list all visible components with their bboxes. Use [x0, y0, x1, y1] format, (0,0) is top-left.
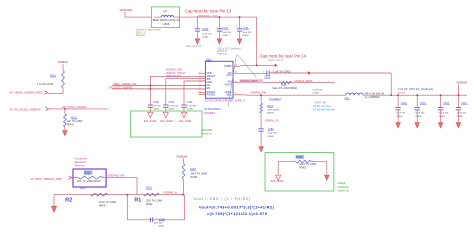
svg-text:0.1uF 25V C0402: 0.1uF 25V C0402: [273, 71, 292, 73]
svg-text:BEAD 100ohm 2A(P)=1A: BEAD 100ohm 2A(P)=1A: [153, 19, 180, 22]
annotation purple box: [73, 169, 106, 187]
ground arrow right leg: [325, 175, 330, 180]
svg-text:10uF 25V: 10uF 25V: [242, 32, 252, 34]
svg-text:Close to pin 14: Close to pin 14: [268, 59, 284, 62]
IC U10 left pin stubs: [199, 72, 206, 74]
svg-text:14: 14: [235, 72, 237, 74]
svg-text:PWC_VDDFA0_VFB: PWC_VDDFA0_VFB: [35, 177, 61, 181]
svg-text:Owner liu: Owner liu: [136, 34, 146, 37]
svg-text:7: 7: [200, 87, 201, 89]
svg-text:4.3R 7.7W: 4.3R 7.7W: [314, 102, 326, 105]
wire divider left corner to ground: [53, 195, 55, 206]
ground arrow for C103: [438, 123, 443, 128]
svg-text:VDDFA0_SN: VDDFA0_SN: [265, 120, 279, 123]
svg-text:VDDEVA: VDDEVA: [176, 154, 187, 158]
wire R126 right leg: [326, 162, 328, 175]
svg-text:+V3.3S: PP3.3V_S0(fixed): +V3.3S: PP3.3V_S0(fixed): [398, 87, 433, 91]
capacitor C141: [457, 94, 459, 96]
svg-text:121K 7% 1/16W: 121K 7% 1/16W: [146, 201, 163, 203]
svg-text:VDDFA0_VFB: VDDFA0_VFB: [108, 174, 125, 178]
svg-text:2: 2: [158, 193, 159, 195]
svg-text:107K 7% 1/16W R0402: 107K 7% 1/16W R0402: [77, 181, 102, 183]
wire SW output row: [240, 94, 246, 96]
svg-text:S7.9x3.9x9.7/8.9mm: S7.9x3.9x9.7/8.9mm: [313, 109, 335, 112]
capacitor C147: [218, 17, 220, 29]
wire pin13 row with arrow: [240, 64, 275, 66]
svg-text:EN: EN: [207, 87, 211, 90]
svg-text:4.7uF 16V: 4.7uF 16V: [168, 106, 178, 108]
svg-text:1: 1: [146, 218, 147, 220]
svg-text:Owner liu: Owner liu: [338, 189, 350, 193]
wire PWC net: [48, 93, 63, 95]
wire VDDCHG to bead L8: [125, 16, 152, 18]
svg-text:1: 1: [279, 81, 280, 83]
svg-text:11: 11: [235, 81, 237, 83]
svg-text:SW1: SW1: [226, 93, 232, 96]
ground arrow for C147: [217, 39, 222, 44]
svg-text:R0402: R0402: [299, 168, 306, 170]
wire row P2 to IC pin: [166, 78, 206, 80]
ground open arrow EVA_AGND 1: [148, 112, 153, 117]
junction VFB node: [126, 194, 128, 196]
svg-text:Vout=(0.743+0.0017*3.3)*(1+41/: Vout=(0.743+0.0017*3.3)*(1+41/R2): [199, 204, 275, 209]
svg-text:EVA_AGND: EVA_AGND: [271, 180, 284, 183]
svg-text:Added: Added: [338, 181, 346, 185]
svg-text:Vout3.3v: Vout3.3v: [397, 91, 406, 94]
leader line to pin area: [228, 55, 237, 108]
svg-text:40: 40: [30, 177, 33, 181]
svg-text:1: 1: [76, 176, 77, 178]
svg-text:Owner liu: Owner liu: [201, 132, 212, 135]
capacitor C103: [440, 94, 442, 96]
svg-text:VCC: VCC: [226, 74, 231, 77]
wire cap branch down: [126, 195, 128, 220]
svg-text:VDDFA0_REFS: VDDFA0_REFS: [295, 80, 313, 83]
ground open arrow EVA_AGND 3: [181, 112, 186, 117]
svg-text:VDDFA0_EN: VDDFA0_EN: [166, 75, 181, 78]
svg-text:10uF 25V: 10uF 25V: [415, 113, 425, 115]
svg-text:13: 13: [235, 65, 237, 67]
ground arrow for C146: [237, 39, 242, 44]
resistor R126 highlighted ref: [296, 155, 305, 159]
svg-text:VDD a VDC connected: VDD a VDC connected: [217, 47, 241, 50]
svg-text:R101: R101: [281, 85, 287, 87]
resistor R124: [260, 103, 263, 113]
wire R126 left leg: [277, 162, 279, 175]
svg-text:R2: R2: [65, 198, 72, 204]
svg-text:1: 1: [319, 81, 320, 83]
svg-text:C0805: C0805: [222, 35, 229, 37]
svg-text:C0402: C0402: [439, 116, 446, 118]
svg-text:5: 5: [200, 79, 201, 81]
svg-text:1: 1: [263, 71, 264, 73]
svg-text:Owner liu: Owner liu: [217, 53, 227, 56]
ground arrow for C142: [396, 123, 401, 128]
svg-text:EVA_AGND: EVA_AGND: [179, 120, 192, 123]
svg-text:SnubBer: SnubBer: [269, 97, 282, 101]
wire C162 to feedback corner: [269, 72, 391, 74]
ground arrow for C141: [456, 123, 461, 128]
svg-text:EN_DCDC_VDDFA0: EN_DCDC_VDDFA0: [63, 105, 88, 109]
svg-text:R0402: R0402: [146, 204, 153, 206]
svg-text:VDDFA0_W: VDDFA0_W: [163, 190, 178, 194]
svg-text:10uF 25V: 10uF 25V: [222, 32, 232, 34]
svg-text:HADA_VDDFA0_PWC: HADA_VDDFA0_PWC: [15, 90, 43, 94]
capacitor C153: [259, 128, 264, 130]
leader line to pin 14: [238, 55, 257, 78]
svg-text:0ohm 7% 1/16W: 0ohm 7% 1/16W: [299, 164, 317, 166]
wire R126 row: [278, 161, 296, 163]
svg-text:10pF 50V: 10pF 50V: [154, 223, 164, 225]
svg-text:C0402: C0402: [202, 36, 209, 38]
svg-text:40: 40: [10, 107, 13, 111]
svg-text:0.1uF 16V: 0.1uF 16V: [187, 106, 197, 108]
wire EN net: [49, 108, 108, 110]
svg-text:10K4 7% 1/16W: 10K4 7% 1/16W: [191, 173, 208, 175]
svg-text:C0805: C0805: [242, 35, 249, 37]
svg-text:R0402: R0402: [99, 205, 106, 207]
svg-text:2: 2: [156, 218, 157, 220]
svg-text:EVA_AGND: EVA_AGND: [160, 120, 173, 123]
svg-text:L2_LV6868A6: L2_LV6868A6: [365, 96, 381, 99]
wire pin11 row REFS: [240, 82, 335, 84]
wire row P1 to IC pin: [150, 75, 205, 77]
svg-text:TO0884: TO0884: [204, 111, 215, 115]
svg-text:=(0.769)*(1+121/22.1)=0.979: =(0.769)*(1+121/22.1)=0.979: [207, 211, 268, 216]
svg-text:22.1K 7% 1/16W: 22.1K 7% 1/16W: [99, 202, 117, 204]
capacitor C170: [416, 94, 418, 96]
svg-text:Vout = VBS * (1 + R1/R2): Vout = VBS * (1 + R1/R2): [193, 196, 250, 201]
annotation green box left ground group: [131, 111, 202, 137]
svg-text:4.7pF 50V: 4.7pF 50V: [267, 133, 278, 135]
svg-text:Cap must be near Pin 13: Cap must be near Pin 13: [185, 9, 232, 14]
svg-text:10uF 25V: 10uF 25V: [396, 113, 406, 115]
svg-text:L8 must be close to front: L8 must be close to front: [136, 29, 162, 32]
svg-text:R1: R1: [134, 198, 141, 204]
svg-text:40: 40: [10, 90, 13, 94]
wire inductor to output caps: [363, 94, 467, 96]
net label VDDFA0_REFS near pin highlighted: [240, 79, 264, 83]
svg-text:C0805: C0805: [415, 116, 422, 118]
svg-text:Same 0% 1/16W R0402: Same 0% 1/16W R0402: [272, 88, 297, 90]
wire labelled HADA_VDDFA0_PW to IC: [112, 85, 205, 87]
svg-text:VDDCHG: VDDCHG: [120, 8, 134, 12]
svg-text:1uF 16V: 1uF 16V: [153, 106, 161, 108]
svg-text:4.7k 2% 1/16W: 4.7k 2% 1/16W: [37, 83, 54, 86]
svg-text:EVA_AGND: EVA_AGND: [144, 120, 157, 123]
wire bead output rail 2.0V: [180, 16, 257, 18]
svg-text:12: 12: [235, 93, 237, 95]
svg-text:L1608: L1608: [163, 23, 170, 26]
IC U10 right pin stubs: [233, 65, 240, 67]
wire rail corner down to pin 13 row: [256, 17, 258, 65]
svg-text:2: 2: [328, 81, 329, 83]
svg-text:4.7R 1/16W: 4.7R 1/16W: [267, 110, 279, 112]
wire feedback corner down to output rail: [390, 73, 392, 95]
svg-text:C0402: C0402: [158, 225, 165, 227]
svg-text:+VDDCHG_2.0V: +VDDCHG_2.0V: [196, 14, 218, 18]
resistor R100 inside purple box: [84, 170, 93, 174]
svg-text:SOT23_DFN8_EPA_EP_AUPE_1: SOT23_DFN8_EPA_EP_AUPE_1: [205, 99, 246, 103]
capacitor C156: [148, 104, 153, 106]
svg-text:1: 1: [142, 193, 143, 195]
ground arrow for C148: [195, 39, 200, 44]
svg-text:R126: R126: [296, 156, 303, 159]
svg-text:R0402: R0402: [67, 125, 74, 127]
svg-text:VDDFA0_REFS: VDDFA0_REFS: [240, 80, 258, 83]
svg-text:C0402: C0402: [267, 136, 274, 138]
ground open arrow EVA_AGND: [276, 175, 281, 180]
capacitor C142: [397, 94, 399, 96]
inductor L10: [346, 93, 364, 95]
wire EN row to IC pin: [150, 88, 205, 90]
ground arrow for R121: [63, 131, 68, 136]
svg-text:VDDFA0_SW: VDDFA0_SW: [250, 90, 266, 94]
svg-text:VOUT: VOUT: [225, 83, 232, 86]
svg-text:2: 2: [292, 81, 293, 83]
op-amp regulator U10 body: [205, 61, 233, 98]
svg-text:2: 2: [200, 72, 201, 74]
annotation green box around L8: [152, 7, 180, 28]
svg-text:Cap must be near Pin 14: Cap must be near Pin 14: [260, 53, 307, 58]
svg-text:PWPA: PWPA: [224, 65, 232, 68]
capacitor C148: [196, 17, 198, 29]
ground arrow divider: [51, 206, 56, 212]
svg-text:10K 7% 1/16W: 10K 7% 1/16W: [67, 121, 83, 123]
svg-text:EN_DCTC_VDDFA0: EN_DCTC_VDDFA0: [109, 86, 133, 89]
svg-text:C0402: C0402: [153, 109, 160, 111]
svg-text:R0402: R0402: [267, 113, 274, 115]
wire divider main: [54, 194, 185, 196]
annotation green box R126: [265, 153, 334, 192]
svg-text:Timer loc: Timer loc: [75, 165, 86, 168]
svg-text:Close to pin 13: Close to pin 13: [186, 45, 202, 48]
capacitor C158: [163, 104, 168, 106]
ground open arrow EVA_AGND 2: [163, 112, 168, 117]
capacitor C159: [181, 104, 186, 106]
wire VFB corner down: [136, 178, 138, 195]
svg-text:0.1uF 25V: 0.1uF 25V: [313, 89, 324, 91]
svg-text:2019.1.11: 2019.1.11: [136, 32, 147, 34]
svg-text:C158: C158: [168, 101, 174, 104]
svg-text:L8: L8: [164, 9, 168, 13]
svg-text:R0402: R0402: [191, 177, 198, 179]
svg-text:C156: C156: [153, 101, 159, 104]
resistor R118: [182, 164, 185, 180]
svg-text:C0805: C0805: [457, 116, 464, 118]
svg-text:6: 6: [200, 84, 201, 86]
svg-text:2019.201: 2019.201: [338, 185, 350, 189]
snubber branch: [260, 94, 262, 96]
wire labelled EN_DCTC_VDDFA0 to IC: [112, 88, 150, 90]
capacitor C162 series on pin14 row: [240, 72, 267, 74]
wire row P3 to IC pin: [184, 80, 205, 82]
svg-text:VDDEVA: VDDEVA: [57, 60, 68, 64]
resistor R121: [64, 108, 66, 110]
svg-text:C159: C159: [187, 101, 193, 104]
svg-text:C0402: C0402: [168, 109, 175, 111]
svg-text:C0805: C0805: [396, 116, 403, 118]
capacitor C146: [239, 17, 241, 29]
svg-text:9: 9: [200, 93, 201, 95]
svg-text:EN_DCDC_VDDFA0: EN_DCDC_VDDFA0: [15, 107, 41, 111]
ground arrow snubber: [259, 147, 264, 152]
svg-text:C0402: C0402: [187, 109, 194, 111]
svg-text:1: 1: [294, 160, 295, 162]
svg-text:VDDEVA: VDDEVA: [456, 81, 467, 85]
svg-text:PGND2: PGND2: [207, 93, 216, 96]
ground arrow for C170: [415, 123, 420, 128]
svg-text:C0402: C0402: [313, 93, 320, 95]
wire vertical junction column x150: [149, 76, 151, 105]
svg-text:R122: R122: [80, 187, 86, 190]
svg-text:0.1uF 25V: 0.1uF 25V: [202, 33, 212, 35]
